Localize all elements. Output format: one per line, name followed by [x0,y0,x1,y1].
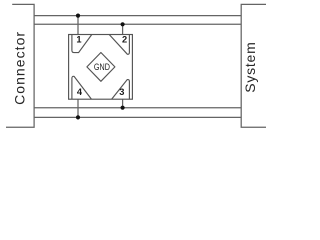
junction dot on net1 [76,14,80,18]
junction dot on net3 [121,106,125,110]
svg-text:2: 2 [122,34,127,44]
svg-text:System: System [242,42,258,93]
svg-text:1: 1 [76,35,81,45]
wire net4 (bottom line 2) [34,116,241,118]
svg-text:Connector: Connector [12,31,28,105]
GND plate diamond [87,53,115,82]
junction dot on net4 [76,115,80,119]
wire stub to pin 1 [77,16,79,35]
wire stub from pin 4 [77,99,79,117]
pin pad 1 (top-left) [72,34,92,52]
pin pad 2 (top-right) [109,34,129,54]
pin pad 4 (bottom-left) [72,76,92,99]
system block (right, open-sided box) [241,4,266,127]
wire stub from pin 3 [122,99,124,108]
pin pad 3 (bottom-right) [112,80,130,100]
junction dot on net2 [121,22,125,26]
wire net1 (top line 1) [34,15,241,17]
wire stub to pin 2 [122,24,124,34]
connector block J (left, open-sided box) [6,4,34,127]
svg-text:3: 3 [119,87,124,97]
wire net2 (top line 2) [34,23,241,25]
svg-text:4: 4 [77,87,83,97]
svg-text:GND: GND [94,62,110,72]
filter U1 body [69,35,133,100]
wire net3 (bottom line 1) [34,107,241,109]
